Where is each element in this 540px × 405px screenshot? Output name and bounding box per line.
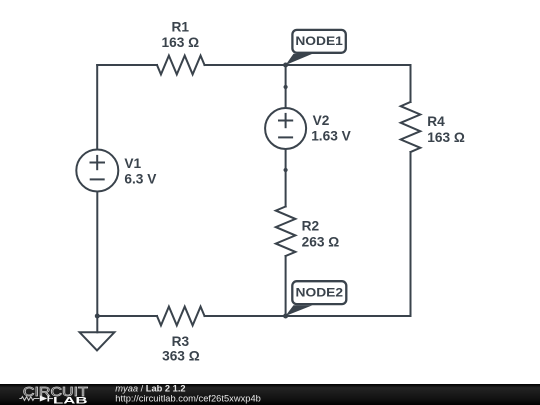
ground (80, 332, 115, 350)
wire mid-top (285, 65, 287, 87)
node B junction (283, 314, 288, 319)
svg-text:R3: R3 (172, 334, 190, 349)
wire right-lower (410, 152, 412, 316)
node ground junction (95, 314, 100, 319)
svg-text:myaa / Lab 2 1.2: myaa / Lab 2 1.2 (115, 383, 185, 393)
svg-text:1.63 V: 1.63 V (311, 129, 351, 144)
NODE1 flag (286, 30, 346, 65)
wire left-upper (96, 65, 98, 150)
wire mid to R2 (285, 170, 287, 207)
wire bottom-right (205, 315, 411, 317)
wire mid V2 lead bottom (285, 149, 287, 170)
voltage source V1 (76, 150, 118, 192)
terminal dot V2 bottom (284, 168, 288, 172)
voltage source V2 (265, 108, 306, 149)
svg-text:R2: R2 (302, 219, 320, 234)
wire top-right (205, 64, 411, 66)
resistor R3 (157, 307, 205, 326)
wire mid V2 lead top (285, 87, 287, 108)
resistor R2 (276, 207, 296, 257)
svg-text:NODE2: NODE2 (296, 286, 344, 300)
NODE2 flag (285, 281, 346, 316)
resistor R1 (157, 56, 205, 75)
svg-text:163 Ω: 163 Ω (427, 130, 465, 145)
node A junction (283, 63, 288, 68)
logo CIRCUIT (19, 385, 88, 405)
svg-text:263 Ω: 263 Ω (302, 235, 340, 250)
svg-text:V1: V1 (124, 156, 141, 171)
svg-text:163 Ω: 163 Ω (161, 35, 199, 50)
svg-text:R4: R4 (427, 114, 445, 129)
logo resistor squiggle (19, 397, 39, 401)
resistor R4 (401, 102, 421, 152)
svg-text:http://circuitlab.com/cef26t5x: http://circuitlab.com/cef26t5xwxp4b (115, 393, 260, 403)
svg-text:LAB: LAB (53, 396, 88, 405)
svg-text:363 Ω: 363 Ω (162, 349, 200, 364)
svg-text:R1: R1 (172, 19, 190, 34)
svg-text:NODE1: NODE1 (295, 34, 343, 48)
wire bottom-left (97, 315, 157, 317)
svg-text:V2: V2 (313, 113, 330, 128)
terminal dot V2 top (284, 85, 288, 89)
svg-text:6.3 V: 6.3 V (124, 171, 157, 186)
logo diode (40, 396, 48, 402)
wire right-upper (410, 65, 412, 102)
wire top-left (97, 64, 157, 66)
wire mid-bottom (285, 256, 287, 316)
ground lead (96, 316, 98, 332)
wire left-lower (96, 192, 98, 317)
